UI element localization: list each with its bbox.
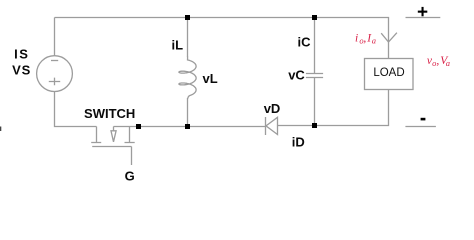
capacitor C top lead: [314, 18, 316, 74]
transistor SWITCH source lead: [125, 127, 135, 143]
minus terminal bar: [405, 126, 436, 128]
svg-text:vC: vC: [288, 67, 305, 82]
plus terminal bar: [406, 17, 441, 19]
source VS/IS circle: [37, 56, 73, 92]
wire top rail: [55, 18, 389, 59]
transistor SWITCH gate lead: [131, 147, 133, 166]
source plus mark: [49, 78, 60, 86]
svg-text:IS: IS: [14, 47, 29, 62]
junction bottom capacitor: [312, 123, 317, 128]
wire source top lead: [54, 18, 56, 56]
inductor L top lead: [187, 18, 189, 57]
svg-text:iL: iL: [172, 37, 184, 52]
capacitor C plates: [306, 74, 323, 78]
svg-text:SWITCH: SWITCH: [84, 106, 135, 121]
diode D triangle: [266, 117, 278, 134]
LOAD box: [365, 59, 414, 90]
inductor L bottom lead: [187, 98, 189, 127]
junction rail after switch: [136, 124, 141, 129]
svg-text:VS: VS: [12, 62, 31, 77]
minus sign: [421, 118, 426, 121]
wire diode to load: [278, 90, 389, 126]
wire source bottom lead: [55, 92, 97, 127]
transistor SWITCH gate plate: [92, 146, 131, 148]
transistor SWITCH drain lead: [91, 127, 101, 143]
transistor SWITCH body arrow: [111, 127, 116, 142]
load current arrowhead: [381, 33, 397, 42]
junction top inductor: [185, 15, 190, 20]
svg-text:iD: iD: [292, 134, 305, 149]
svg-text:vD: vD: [264, 101, 281, 116]
junction bottom inductor: [185, 124, 190, 129]
svg-text:iC: iC: [298, 34, 312, 49]
svg-text:LOAD: LOAD: [373, 67, 404, 79]
plus sign: [418, 11, 428, 13]
inductor L coil: [179, 56, 196, 99]
capacitor C bottom lead: [314, 78, 316, 126]
junction top capacitor: [312, 15, 317, 20]
left edge artifact: [0, 127, 1, 132]
wire bottom rail mid: [114, 126, 266, 128]
source minus mark: [51, 60, 58, 62]
svg-text:vL: vL: [203, 71, 218, 86]
svg-text:vo,Va: vo,Va: [427, 55, 450, 68]
diode D cathode bar: [265, 117, 267, 135]
svg-text:G: G: [125, 169, 135, 184]
